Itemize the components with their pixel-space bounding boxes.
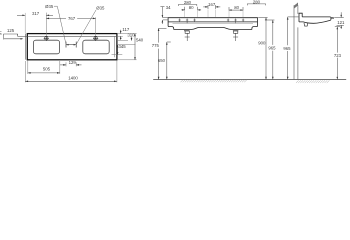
svg-text:505: 505	[43, 67, 51, 72]
ext left edge down	[27, 61, 29, 74]
dim 900 right of middle view	[258, 18, 267, 80]
basin side profile	[299, 13, 334, 26]
dim 540	[134, 34, 136, 60]
deck fixing crosses	[178, 19, 244, 24]
ext ledge right	[117, 35, 123, 37]
ext basin bottom right	[112, 54, 123, 56]
dim 129	[60, 64, 82, 66]
svg-text:80: 80	[189, 5, 194, 10]
dim ext line faucet right up	[95, 17, 97, 36]
ext basin top right	[117, 40, 128, 42]
svg-text:34: 34	[166, 5, 171, 10]
svg-text:775: 775	[152, 43, 160, 48]
ext 505 right	[59, 61, 61, 74]
wall	[294, 5, 298, 79]
svg-text:117: 117	[122, 27, 129, 32]
svg-text:Ø35: Ø35	[45, 4, 54, 9]
overflow tab	[331, 17, 334, 20]
leader from Ø35 #1 to left cross	[54, 6, 66, 44]
deck band line	[168, 21, 257, 23]
svg-text:97: 97	[0, 30, 3, 35]
dim 117	[120, 30, 122, 40]
ext verticals from top dims down to slab	[185, 10, 243, 18]
floor hatch middle	[181, 80, 247, 83]
svg-text:317: 317	[32, 11, 40, 16]
svg-text:1400: 1400	[68, 76, 78, 81]
ledge line	[27, 35, 117, 37]
dim 280 right	[247, 4, 265, 6]
svg-text:80: 80	[234, 5, 239, 10]
center hole cross left	[65, 42, 67, 48]
svg-text:345: 345	[119, 44, 127, 49]
svg-text:125: 125	[7, 28, 15, 33]
svg-text:900: 900	[258, 41, 266, 46]
dim 965 right of middle view	[265, 20, 275, 80]
right basin bowl	[83, 40, 109, 54]
top dims middle: 280 left	[178, 5, 196, 7]
dim ext line faucet left up	[45, 13, 47, 36]
ext left outer	[24, 61, 26, 82]
svg-text:Ø35: Ø35	[96, 5, 105, 10]
ext cross row right	[117, 44, 135, 46]
front lip and bowl underside	[299, 17, 331, 23]
dim 767	[46, 18, 95, 20]
dim 317	[17, 13, 53, 34]
svg-text:280: 280	[253, 0, 261, 5]
floor hatch right	[296, 80, 329, 83]
dim 125 top-left	[4, 34, 28, 40]
svg-text:965: 965	[268, 46, 276, 51]
dim 80 left	[181, 7, 201, 11]
dim 310	[131, 37, 133, 41]
dim 650	[166, 42, 171, 80]
svg-text:540: 540	[136, 38, 144, 43]
left basin bowl	[33, 40, 59, 54]
deck top	[302, 16, 330, 18]
inner right wall line	[113, 36, 115, 57]
dim 121	[334, 12, 344, 29]
drain trap right	[233, 31, 238, 41]
ext right edge down	[116, 61, 118, 83]
svg-text:767: 767	[68, 16, 76, 21]
dim 34 left of slab	[160, 7, 168, 24]
ext top edge right	[117, 33, 137, 35]
svg-text:167: 167	[208, 2, 216, 7]
svg-text:129: 129	[69, 60, 77, 65]
faucet hole left	[44, 36, 49, 41]
leader from Ø35 #2 to right cross	[76, 10, 96, 44]
center hole cross right	[75, 42, 77, 48]
dim 345	[117, 45, 119, 55]
dim 1400	[25, 80, 117, 82]
dim 965 side	[287, 17, 299, 80]
ext crosses down	[65, 62, 67, 66]
dim 167 center	[203, 5, 220, 9]
svg-text:965: 965	[283, 46, 291, 51]
rear upstand	[299, 13, 302, 22]
drain trap left	[184, 31, 190, 41]
faucet hole right	[93, 36, 98, 41]
dim 775	[158, 28, 167, 79]
svg-text:310: 310	[127, 32, 135, 37]
floor line	[153, 79, 346, 81]
connector between crosses	[66, 44, 76, 46]
drain stub	[304, 23, 308, 26]
dim 505	[28, 72, 60, 74]
wall hatch	[294, 3, 298, 9]
outer lip left	[24, 34, 26, 60]
ext bottom edge right	[117, 59, 137, 61]
svg-text:121: 121	[337, 20, 345, 25]
svg-text:723: 723	[334, 53, 342, 58]
dim 80 right	[229, 7, 243, 11]
slab body	[168, 18, 257, 30]
dim 723	[335, 27, 340, 80]
basin outer rect	[27, 34, 117, 60]
svg-text:650: 650	[158, 58, 166, 63]
deck front line	[173, 22, 254, 24]
